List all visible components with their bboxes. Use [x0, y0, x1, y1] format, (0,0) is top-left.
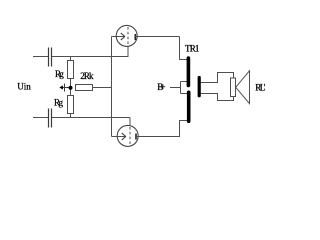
svg-text:2Rk: 2Rk — [80, 71, 94, 81]
svg-text:B+: B+ — [157, 82, 165, 92]
svg-text:Rg: Rg — [55, 69, 64, 79]
svg-text:TR1: TR1 — [185, 43, 199, 53]
svg-text:Rg: Rg — [54, 97, 64, 107]
svg-text:RL': RL' — [255, 83, 266, 93]
svg-text:Uin: Uin — [17, 81, 31, 91]
